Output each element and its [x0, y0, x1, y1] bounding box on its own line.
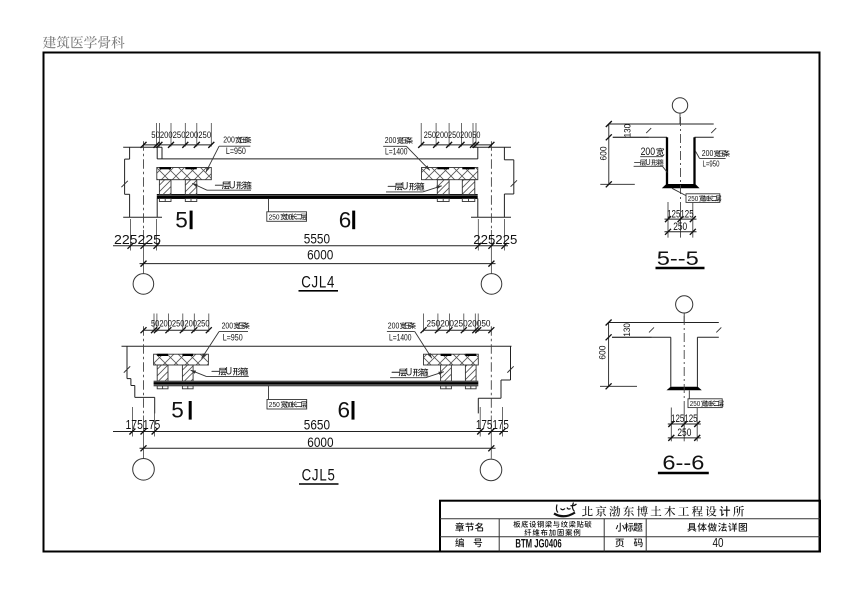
svg-text:U: U: [226, 366, 233, 378]
CJL4 bottom CFRP sheet (250 wide, thick): [157, 195, 478, 198]
CJL5 right strap thick top edges: [441, 354, 477, 356]
CJL4 left grid centerline: [143, 141, 145, 273]
section 5-5 web centerline: [680, 117, 682, 207]
svg-text:200: 200: [388, 321, 400, 330]
CJL4 section marker 6: [339, 207, 355, 232]
CJL4 left U-strap leg 2 (hatched): [185, 180, 197, 195]
svg-text:5: 5: [171, 398, 184, 423]
svg-text:L=950: L=950: [226, 146, 246, 157]
CJL4 right column outline: [471, 147, 514, 217]
CJL5 left CFRP batten strip L=950 (hatched): [154, 354, 209, 365]
svg-text:175175: 175175: [126, 417, 161, 432]
section 5-5 bottom dimensions 125/125/250: [665, 202, 697, 238]
CJL4 left grid bubble: [133, 274, 154, 295]
CJL5 left wall break mark: [124, 366, 130, 372]
CJL5 right anchor tabs under beam: [441, 386, 477, 389]
section 5-5 slab break ticks: [646, 128, 716, 133]
section 6-6 web left line: [670, 337, 672, 387]
CJL5 right grid centerline: [490, 326, 492, 458]
CJL4 left anchor tabs under beam: [159, 199, 196, 202]
svg-text:250: 250: [673, 221, 687, 233]
CJL5 left wall outline (stepped break): [127, 346, 155, 413]
CJL5 left anchor tabs under beam: [157, 386, 193, 389]
svg-text:U: U: [406, 367, 413, 379]
CJL5 right U-strap leg 2 (hatched): [465, 365, 476, 381]
CJL4 dimension line 225/225 + 5550: [113, 219, 517, 251]
section 5-5 boxed label: 250 wide lengthened second layer: [672, 188, 721, 203]
CJL4 right strap thick top edges: [437, 167, 475, 169]
CJL4 label: 200 wide batten L=1400: [383, 136, 430, 170]
title block row dividers: [440, 519, 820, 537]
section 5-5 slab bottom lines: [613, 136, 714, 138]
CJL5 right U-strap leg 1 (hatched): [441, 365, 452, 381]
CJL4 right grid centerline: [490, 141, 492, 273]
svg-text:U: U: [229, 180, 236, 192]
title block cell: number label: [455, 538, 482, 547]
section 6-6 bottom CFRP strip (thick): [667, 387, 702, 391]
CJL4 top-left dimension line 50/200/250/200/250: [141, 123, 215, 148]
svg-text:200: 200: [702, 149, 714, 158]
CJL4 title text: [299, 272, 339, 291]
CJL4 right anchor tabs under beam: [437, 199, 475, 202]
section 6-6 bubble stem: [683, 313, 685, 323]
CJL5 bottom CFRP sheet (250 wide, thick): [154, 382, 479, 385]
title block company name: [582, 506, 744, 517]
svg-text:U: U: [402, 181, 409, 193]
CJL5 right CFRP batten strip L=1400 (hatched): [424, 354, 479, 365]
svg-text:L=950: L=950: [223, 332, 243, 343]
svg-text:U: U: [645, 157, 650, 167]
title block cell: page label: [615, 539, 642, 548]
svg-text:250: 250: [269, 212, 280, 221]
svg-text:5: 5: [175, 207, 188, 232]
svg-text:CJL4: CJL4: [301, 272, 335, 291]
section 5-5 web left CFRP side (thick): [666, 137, 668, 184]
CJL4 beam slab top line: [157, 158, 478, 160]
CJL5 dimension line 6000: [140, 434, 496, 452]
CJL5 slab top line: [122, 345, 512, 347]
section 5-5 bubble stem: [679, 113, 681, 124]
CJL4 right column break mark: [511, 180, 517, 186]
svg-text:5650: 5650: [304, 416, 330, 432]
CJL4 beam bottom outline: [157, 198, 478, 200]
CJL4 right CFRP batten strip L=1400 (hatched): [422, 168, 478, 180]
CJL5 label: one layer U-strap (left): [191, 366, 249, 378]
svg-text:CJL5: CJL5: [302, 466, 336, 485]
section 5-5 label: 200 wide batten L=950: [695, 149, 730, 168]
section 5-5 title: [656, 248, 705, 270]
section 6-6 left dimension 130/600: [598, 320, 652, 390]
CJL5 top-right dimension line 250/200/250/200/50: [421, 314, 495, 334]
section 6-6 title: [658, 452, 709, 474]
section 5-5 left dimension 130/600: [598, 121, 648, 187]
CJL5 dimension line 175/175 + 5650: [113, 407, 509, 437]
svg-text:250: 250: [677, 427, 691, 439]
section 5-5 slab top line: [609, 123, 714, 125]
svg-text:250: 250: [269, 400, 280, 409]
CJL5 top-left dimension line 50/200/250/200/250: [141, 314, 212, 334]
svg-text:6--6: 6--6: [662, 452, 704, 474]
CJL4 right U-strap leg 2 (hatched): [462, 180, 475, 195]
CJL5 label: 200 wide batten L=950: [202, 321, 250, 358]
title block cell: chapter name label: [455, 522, 483, 531]
CJL5 left grid centerline: [143, 326, 145, 458]
section 5-5 grid bubble: [672, 98, 687, 113]
CJL4 dimension line 6000: [140, 247, 496, 267]
CJL4 section marker 5: [175, 207, 192, 232]
svg-text:125125: 125125: [671, 413, 698, 425]
svg-text:6: 6: [338, 398, 351, 423]
section 6-6 grid bubble: [676, 296, 693, 313]
svg-text:225225: 225225: [473, 232, 517, 247]
CJL4 left column outline: [123, 147, 162, 217]
section 6-6 web right line: [696, 337, 698, 387]
section 6-6 web centerline: [683, 316, 685, 409]
svg-text:225225: 225225: [114, 232, 161, 247]
svg-text:130: 130: [622, 323, 633, 337]
svg-text:BTM JG0406: BTM JG0406: [515, 538, 561, 550]
section 5-5 label: 200 wide / one layer U-strap: [634, 146, 668, 172]
CJL4 right grid bubble: [481, 274, 502, 295]
CJL4 label: 200 wide batten L=950: [206, 136, 251, 173]
svg-text:L=1400: L=1400: [389, 332, 412, 343]
title block outer box: [440, 501, 820, 552]
svg-text:6000: 6000: [307, 434, 333, 450]
CJL5 label: 200 wide batten L=1400: [387, 321, 432, 358]
CJL5 left grid bubble: [133, 459, 155, 481]
section 5-5 web right CFRP side (thick): [693, 137, 695, 184]
svg-text:250: 250: [690, 399, 701, 408]
CJL5 left strap thick top edges: [157, 354, 193, 356]
CJL4 left column break mark: [121, 181, 127, 187]
title block cell: subtitle label: [616, 523, 643, 532]
svg-text:6000: 6000: [307, 247, 333, 263]
CJL4 beam soffit line: [157, 194, 478, 196]
svg-text:130: 130: [623, 124, 634, 138]
title block column dividers: [499, 519, 646, 552]
section 6-6 boxed label: 250 wide lengthened second layer: [688, 391, 724, 408]
svg-text:50200250200250: 50200250200250: [151, 319, 210, 329]
CJL5 left U-strap leg 2 (hatched): [182, 365, 193, 381]
CJL5 section marker 5: [171, 398, 191, 423]
section 5-5 bottom CFRP strip (thick): [662, 184, 700, 188]
svg-text:175175: 175175: [476, 417, 509, 432]
CJL4 right U-strap leg 1 (hatched): [437, 180, 449, 195]
CJL4 left CFRP batten strip L=950 (hatched): [157, 168, 212, 180]
CJL4 top-right dimension line 250/200/250/200/50: [418, 123, 494, 148]
title block cell: subtitle value: [687, 523, 747, 532]
svg-text:200: 200: [223, 136, 235, 145]
CJL4 left strap thick top edges: [159, 167, 196, 169]
svg-text:600: 600: [598, 346, 609, 360]
CJL5 beam bottom outline: [154, 385, 479, 387]
CJL5 left U-strap leg 1 (hatched): [157, 365, 168, 381]
section 6-6 slab top line: [609, 322, 719, 324]
svg-text:200: 200: [222, 321, 234, 330]
CJL5 right wall break mark: [507, 366, 513, 372]
CJL5 right grid bubble: [480, 459, 502, 481]
CJL5 label: one layer U-strap (right): [390, 367, 444, 379]
svg-text:600: 600: [598, 147, 609, 161]
page watermark heading text: [43, 36, 125, 49]
svg-text:50200250200250: 50200250200250: [151, 130, 211, 140]
CJL4 label: one layer U-strap (right): [386, 181, 442, 193]
svg-text:125125: 125125: [667, 208, 694, 220]
CJL4 label: one layer U-strap (left): [192, 180, 251, 192]
svg-text:6: 6: [339, 207, 352, 232]
CJL5 beam soffit line: [154, 380, 479, 382]
CJL5 title text: [299, 466, 339, 485]
section 6-6 bottom dimensions 125/125/250: [668, 408, 701, 442]
section 6-6 slab break ticks: [649, 327, 721, 332]
CJL4 left U-strap leg 1 (hatched): [159, 180, 171, 195]
svg-text:L=950: L=950: [703, 158, 720, 168]
svg-text:5550: 5550: [304, 231, 330, 247]
outer border frame: [44, 53, 820, 552]
CJL5 right wall outline (stepped break): [478, 346, 510, 413]
title block logo mark: [554, 503, 577, 517]
section 6-6 slab bottom lines: [612, 336, 719, 338]
svg-text:25020025020050: 25020025020050: [427, 319, 491, 329]
svg-text:25020025020050: 25020025020050: [424, 130, 481, 140]
svg-text:L=1400: L=1400: [385, 147, 408, 158]
svg-text:40: 40: [713, 535, 724, 550]
title block cell: chapter name value (two lines): [514, 521, 592, 536]
CJL4 boxed label: 250 wide lengthened second layer: [267, 199, 307, 222]
svg-text:250: 250: [688, 194, 699, 203]
svg-text:200: 200: [385, 136, 397, 145]
svg-text:5--5: 5--5: [657, 248, 699, 270]
CJL5 section marker 6: [338, 398, 355, 423]
CJL5 boxed label: 250 wide lengthened second layer: [267, 386, 307, 409]
